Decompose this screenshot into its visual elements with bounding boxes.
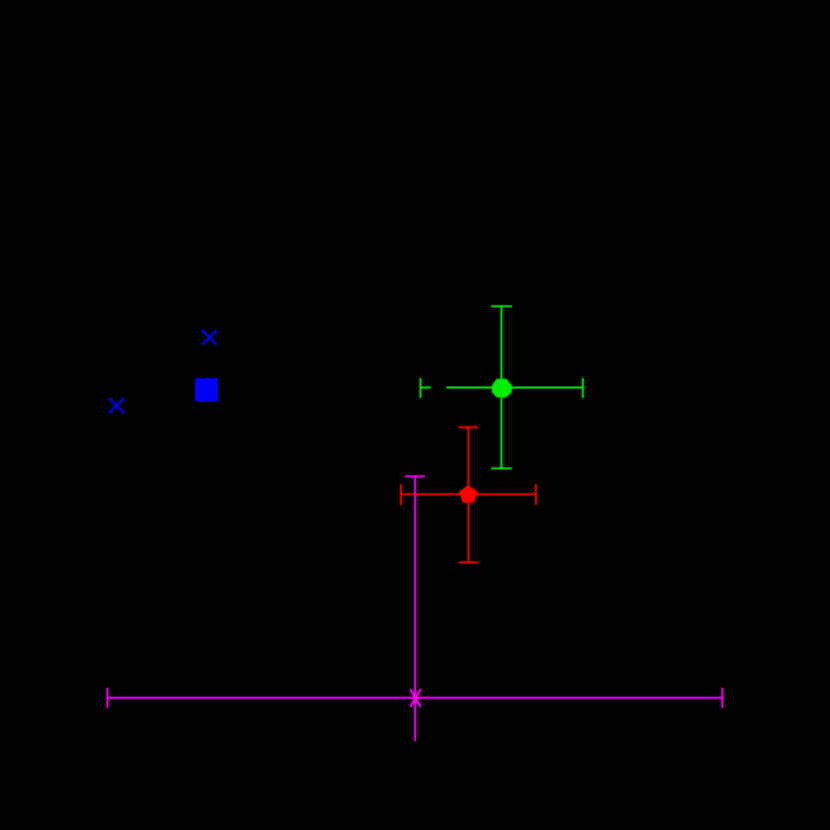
marker H1 (green filled octagon) xyxy=(492,379,512,398)
left cap xyxy=(420,378,422,398)
bottom cap xyxy=(458,561,478,563)
marker X2 (blue cross, lower left) xyxy=(109,398,124,413)
error bars E1 (green point) xyxy=(421,306,583,468)
horizontal error line (right of gap) xyxy=(446,387,583,389)
marker X1 (blue cross, upper) xyxy=(202,330,217,345)
marker S1 (blue filled square) xyxy=(195,378,218,402)
right cap xyxy=(721,688,723,708)
top cap xyxy=(491,305,512,307)
horizontal error line xyxy=(107,697,722,699)
right cap xyxy=(535,484,537,505)
vertical error line xyxy=(414,476,416,741)
vertical error line xyxy=(467,427,469,562)
left cap xyxy=(400,484,402,505)
right cap xyxy=(582,378,584,398)
left stub xyxy=(421,387,432,389)
marker ST3 (magenta star diagonals) xyxy=(410,689,421,707)
left cap xyxy=(106,688,108,708)
marker P2 (red filled pentagon) xyxy=(459,485,478,503)
bottom cap xyxy=(491,467,512,469)
error bars E3 (magenta point) xyxy=(107,476,722,741)
vertical error line xyxy=(500,306,502,468)
top cap xyxy=(405,475,425,477)
horizontal error line xyxy=(401,493,536,495)
top cap xyxy=(458,426,478,428)
error bars E2 (red point) xyxy=(401,427,536,562)
